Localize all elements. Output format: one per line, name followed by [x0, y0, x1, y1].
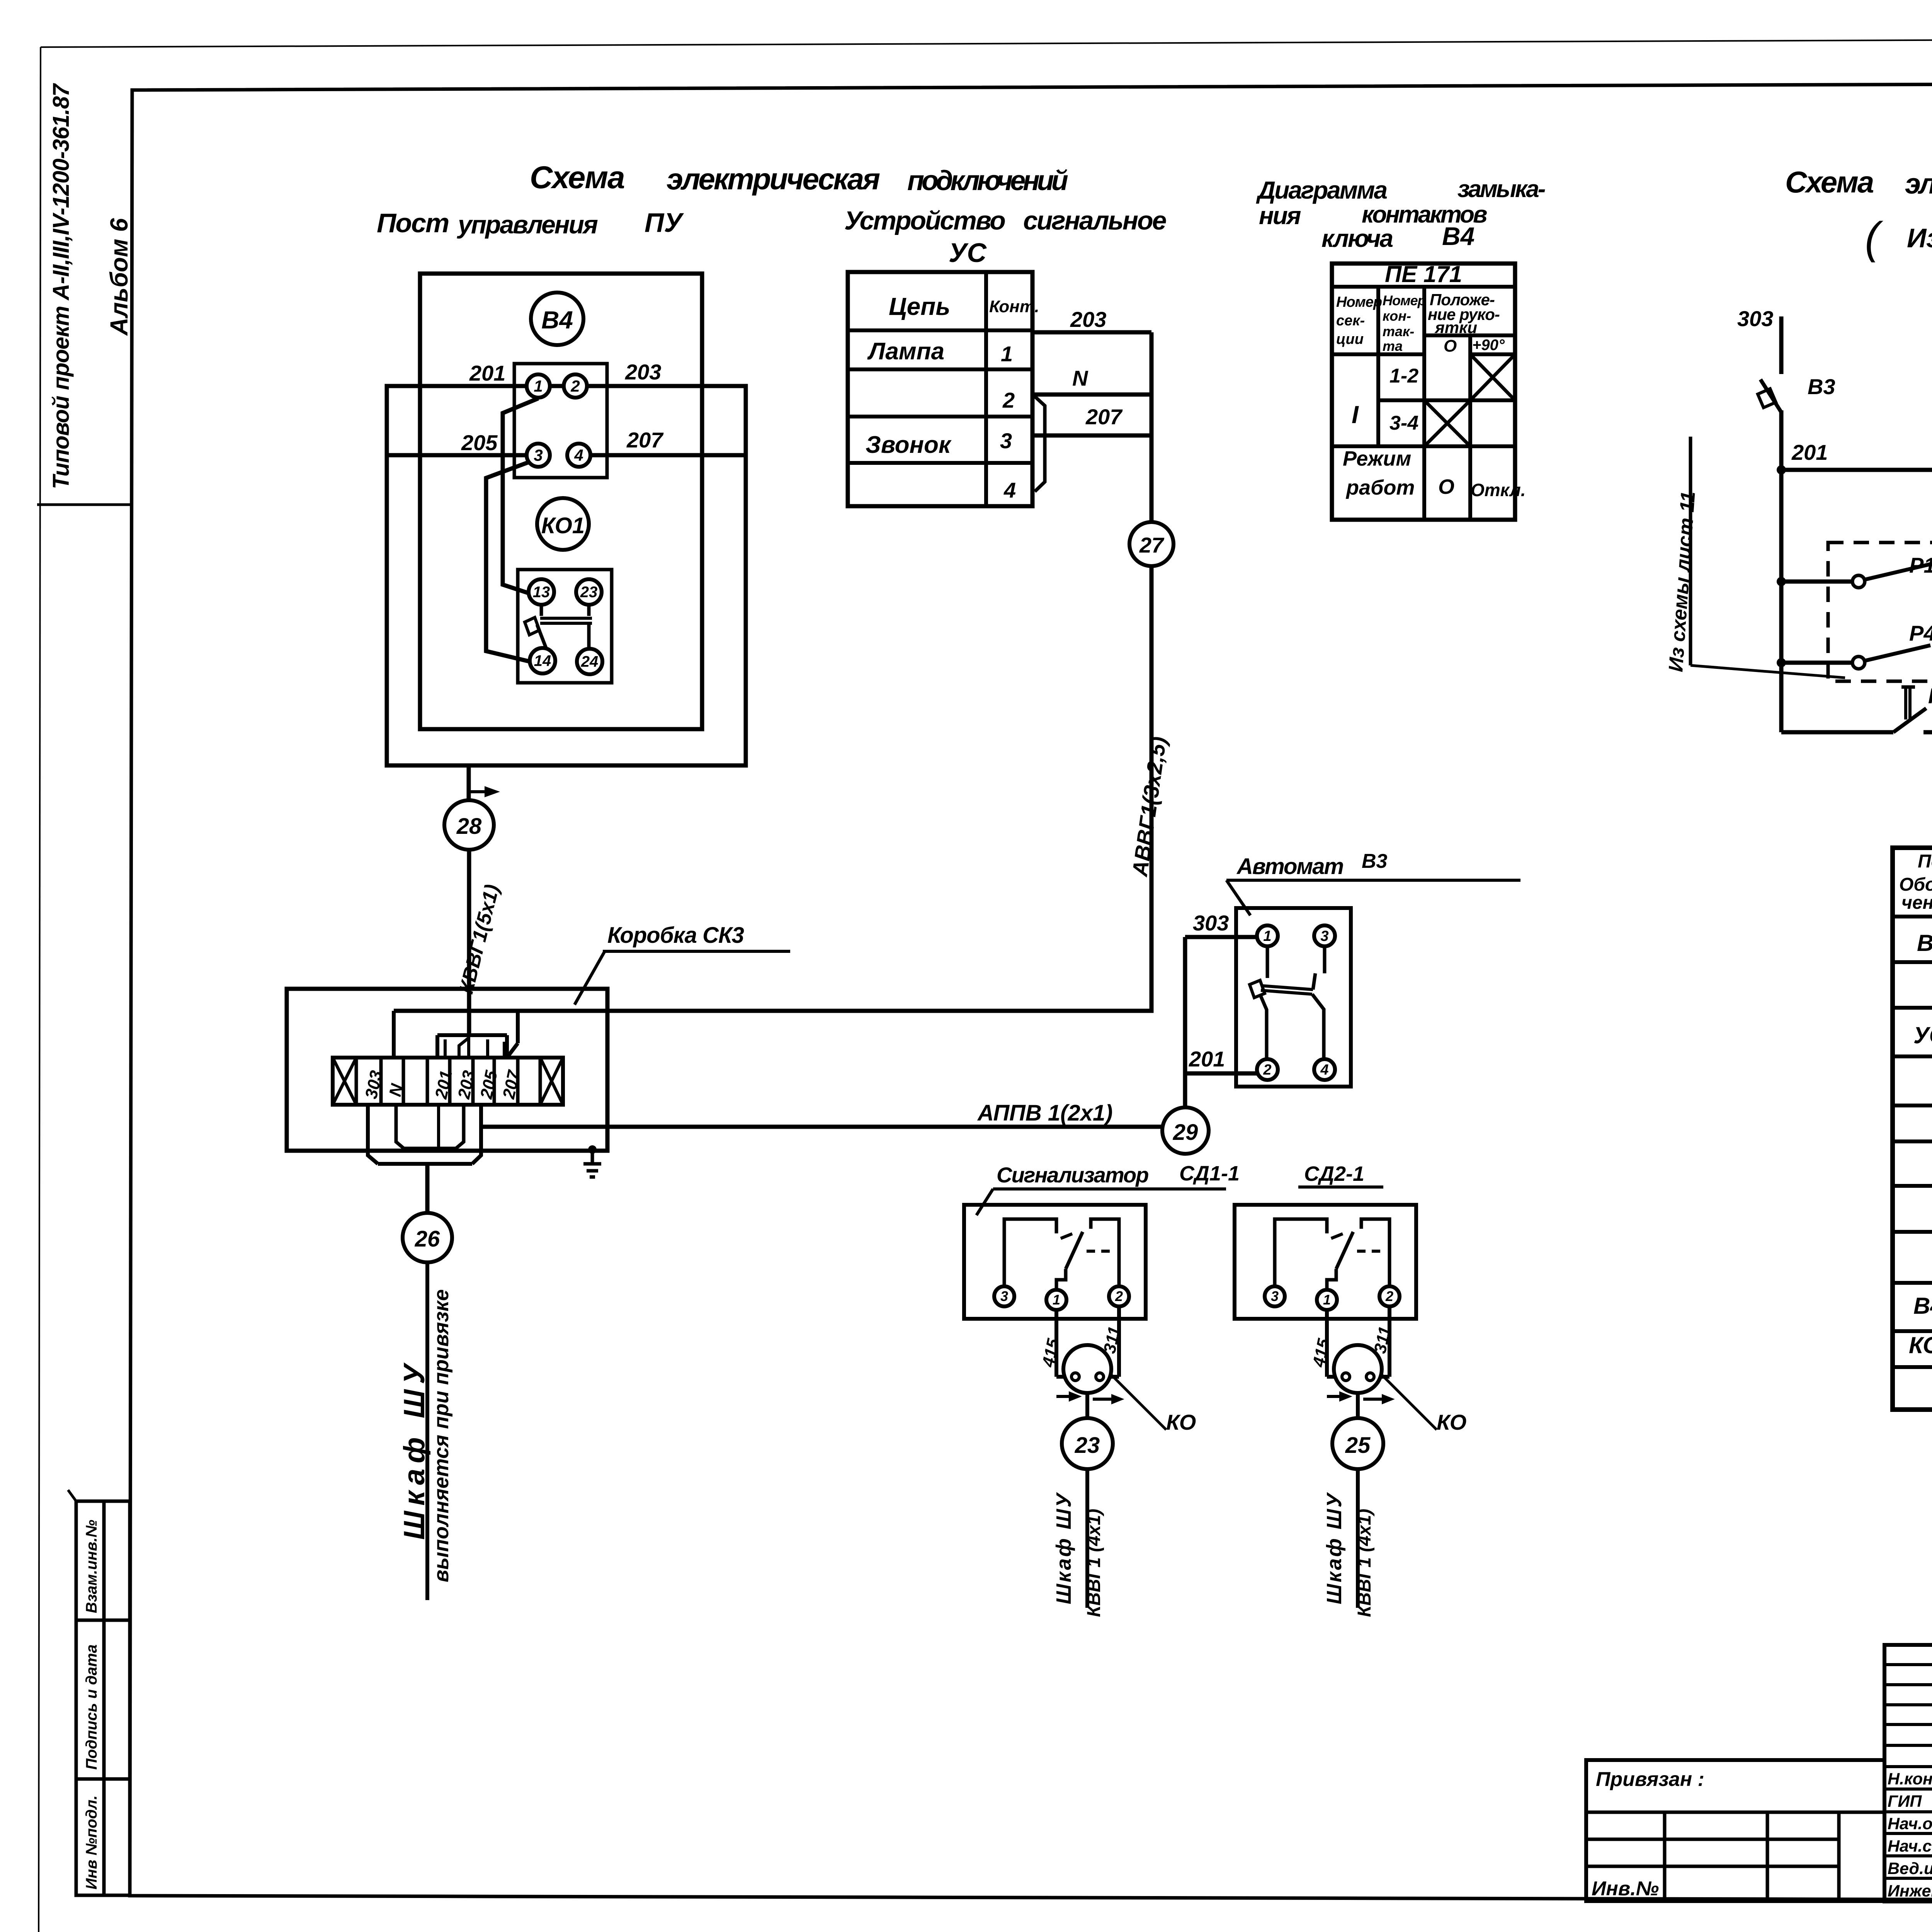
KO1 contact symbol — [540, 605, 543, 616]
svg-text:КО1: КО1 — [541, 513, 585, 538]
svg-text:Обозна-: Обозна- — [1899, 874, 1932, 895]
binding box Привязан — [1586, 1760, 1884, 1901]
SD2-1 pin 1 — [1317, 1290, 1337, 1310]
svg-text:Схема: Схема — [1785, 165, 1874, 199]
button KO1 contact in schematic — [1781, 730, 1893, 735]
svg-text:КО: КО — [1166, 1410, 1196, 1434]
KO1 pin 24 — [577, 649, 602, 674]
svg-text:КВВГ1 (4х1): КВВГ1 (4х1) — [1354, 1509, 1375, 1617]
svg-text:ПУ: ПУ — [645, 207, 684, 238]
svg-text:Номер: Номер — [1336, 294, 1382, 310]
node 27 cable circle — [1129, 522, 1173, 566]
node 25 cable circle — [1332, 1418, 1383, 1469]
contact closed X mark (3-4 at O) — [1424, 400, 1470, 446]
SD2-1 wire 311 — [1388, 1306, 1391, 1377]
wire 207 from US pin 3 — [1032, 434, 1151, 438]
cable to ShU cabinet — [425, 1262, 429, 1600]
svg-text:В4: В4 — [1913, 1293, 1932, 1319]
button KO1 designator circle — [537, 498, 589, 550]
svg-text:4: 4 — [574, 446, 583, 464]
svg-text:Автомат: Автомат — [1236, 854, 1344, 879]
svg-text:201: 201 — [1189, 1047, 1225, 1071]
control post PU outer box — [387, 386, 746, 765]
svg-text:О: О — [1438, 475, 1454, 498]
SD2-1 pin 2 — [1379, 1286, 1400, 1306]
margin stamp boxes: Взам.инв.№ / Подпись и дата / Инв №подл. — [76, 1501, 130, 1895]
node 26 cable circle — [403, 1213, 452, 1262]
svg-text:4: 4 — [1320, 1062, 1328, 1078]
SD1-1 wire KO to node — [1085, 1393, 1089, 1419]
signature table grid — [1884, 1645, 1932, 1901]
svg-text:1: 1 — [1323, 1292, 1331, 1308]
svg-text:Номер: Номер — [1383, 293, 1426, 308]
svg-text:электрическая: электрическая — [1905, 168, 1932, 200]
SD1-1 cable to ShU — [1085, 1469, 1089, 1608]
breaker B3 symbol — [1760, 379, 1781, 412]
ground symbol at SK3 — [588, 1145, 597, 1154]
B4 pin 3 — [527, 444, 550, 467]
svg-text:Конт.: Конт. — [989, 297, 1039, 316]
B3 breaker symbol — [1266, 946, 1269, 978]
SD1-1 wire 311 — [1117, 1306, 1121, 1377]
svg-text:+90°: +90° — [1472, 337, 1505, 354]
svg-text:3: 3 — [1000, 429, 1012, 453]
svg-text:N: N — [1072, 366, 1088, 390]
button KO1 terminal box — [518, 570, 612, 683]
svg-text:СД2-1: СД2-1 — [1304, 1162, 1364, 1185]
svg-text:207: 207 — [626, 428, 664, 452]
svg-text:чение: чение — [1901, 893, 1932, 913]
SD2-1 wire KO to node — [1356, 1393, 1360, 1419]
svg-text:управления: управления — [457, 210, 598, 239]
KO1 pin 14 — [530, 648, 555, 673]
svg-text:Нач.отд: Нач.отд — [1888, 1815, 1932, 1833]
svg-text:2: 2 — [1263, 1062, 1271, 1078]
svg-text:сек-: сек- — [1336, 313, 1365, 329]
svg-text:3: 3 — [1000, 1288, 1008, 1304]
cable AVVG down wire — [1150, 332, 1154, 522]
wire from pin 1 to pin 13 — [503, 398, 538, 593]
wire 303 to B3 pin1 — [1185, 935, 1257, 939]
svg-text:Взам.инв.№: Взам.инв.№ — [83, 1520, 100, 1613]
breaker B3 wire top — [1779, 316, 1784, 374]
sheet paper edge — [41, 37, 1932, 47]
wire 201 horizontal — [1781, 468, 1932, 472]
svg-text:203: 203 — [1070, 307, 1106, 332]
svg-text:та: та — [1383, 338, 1403, 354]
svg-text:24: 24 — [581, 653, 599, 670]
svg-text:КО1: КО1 — [1909, 1332, 1932, 1358]
B3 pin 2 — [1257, 1059, 1278, 1080]
breaker B3 wire bottom — [1779, 410, 1784, 470]
svg-text:3-4: 3-4 — [1389, 412, 1418, 434]
svg-text:Вед.инж.: Вед.инж. — [1888, 1859, 1932, 1878]
cable bracket — [1035, 396, 1045, 492]
svg-text:Лампа: Лампа — [867, 338, 944, 365]
wire APPV to node 29 — [481, 1125, 1163, 1129]
svg-text:28: 28 — [456, 814, 482, 839]
svg-text:Инв.№: Инв.№ — [1592, 1878, 1659, 1900]
node 29 cable circle — [1162, 1107, 1209, 1154]
svg-text:В4: В4 — [1442, 222, 1475, 250]
cable down from SK3 — [425, 1164, 430, 1213]
SD2-1 cable direction arrows — [1327, 1395, 1340, 1398]
KO1 pin 23 — [576, 579, 602, 605]
svg-text:УС: УС — [949, 238, 987, 268]
wire N from US pin 2 — [1032, 393, 1151, 397]
svg-text:кон-: кон- — [1383, 308, 1411, 324]
svg-text:205: 205 — [461, 430, 498, 455]
svg-text:3: 3 — [1320, 928, 1328, 944]
svg-text:27: 27 — [1139, 533, 1165, 557]
flow indicator SD2-1 box — [1235, 1205, 1416, 1319]
svg-text:2: 2 — [570, 377, 580, 395]
svg-text:ятки: ятки — [1434, 318, 1477, 337]
B3 pin 3 — [1314, 925, 1335, 946]
svg-text:КО: КО — [1437, 1410, 1466, 1434]
svg-text:Альбом 6: Альбом 6 — [105, 218, 133, 336]
B3 pin 1 — [1257, 925, 1278, 946]
svg-text:Схема: Схема — [530, 160, 624, 195]
KO1 pin 13 — [529, 579, 554, 605]
svg-text:29: 29 — [1173, 1120, 1198, 1145]
cable from PU down — [467, 765, 471, 800]
svg-text:Шкаф ШУ: Шкаф ШУ — [398, 1359, 431, 1540]
terminal strip end X left — [333, 1058, 356, 1105]
B4 pin 1 — [527, 374, 550, 398]
svg-text:Из: Из — [1907, 223, 1932, 253]
svg-text:3: 3 — [534, 446, 543, 464]
svg-text:1: 1 — [1001, 342, 1013, 366]
wire 203 from US pin 1 — [1032, 330, 1151, 335]
svg-text:Цепь: Цепь — [889, 293, 950, 320]
svg-text:Устройство: Устройство — [844, 206, 1005, 235]
switch B4 terminal box — [514, 364, 607, 478]
svg-text:201: 201 — [469, 361, 505, 385]
svg-text:Сигнализатор: Сигнализатор — [997, 1163, 1148, 1187]
svg-text:1-2: 1-2 — [1389, 365, 1418, 387]
SD1-1 KO cable circle — [1063, 1345, 1111, 1393]
svg-text:14: 14 — [534, 653, 551, 670]
svg-text:замыка-: замыка- — [1458, 176, 1545, 202]
svg-text:подключений: подключений — [907, 165, 1068, 196]
svg-text:4: 4 — [1003, 478, 1016, 502]
svg-text:работ: работ — [1345, 476, 1415, 499]
SD2-1 wire 415 — [1325, 1310, 1329, 1377]
signal device US table — [848, 272, 1032, 506]
svg-text:В3: В3 — [1808, 374, 1835, 399]
cable KVVG1(5x1) wire — [467, 850, 471, 1036]
SD1-1 pin 2 — [1109, 1286, 1129, 1306]
SD2-1 KO label leader — [1382, 1375, 1437, 1430]
svg-text:В3: В3 — [1362, 850, 1388, 872]
SD2-1 internal contact symbol — [1275, 1219, 1327, 1287]
node 28 cable circle — [444, 800, 494, 850]
SD1-1 KO label leader — [1111, 1375, 1166, 1430]
cable fan above strip — [392, 1011, 396, 1058]
svg-text:ния: ния — [1259, 202, 1301, 230]
svg-text:сигнальное: сигнальное — [1023, 206, 1166, 235]
svg-text:1: 1 — [534, 377, 543, 395]
parts list table — [1893, 848, 1932, 1410]
junction box SK3 — [287, 989, 607, 1151]
svg-text:Н.контр: Н.контр — [1888, 1770, 1932, 1788]
svg-text:О: О — [1444, 337, 1457, 355]
SD1-1 cable direction arrows — [1056, 1395, 1069, 1398]
svg-text:303: 303 — [1737, 306, 1773, 331]
svg-text:Нач.сект.: Нач.сект. — [1888, 1837, 1932, 1855]
svg-text:Коробка СК3: Коробка СК3 — [607, 923, 744, 948]
svg-text:Звонок: Звонок — [866, 432, 952, 458]
relay contacts dashed box — [1828, 543, 1932, 681]
wire 205-207 through PU — [387, 453, 527, 457]
svg-text:КВВГ1 (4х1): КВВГ1 (4х1) — [1084, 1509, 1104, 1617]
svg-text:3: 3 — [1271, 1288, 1279, 1304]
wire 201 from B3 pin2 — [1185, 1071, 1257, 1076]
SD2-1 cable to ShU — [1356, 1469, 1360, 1608]
contact closed X mark (1-2 at +90) — [1470, 354, 1515, 400]
SD1-1 pin 3 — [994, 1286, 1014, 1306]
wire from pin 3 to pin 14 — [486, 461, 531, 662]
terminal strip end X right — [540, 1058, 563, 1105]
switch B4 designator circle — [531, 293, 583, 345]
svg-text:АППВ 1(2х1): АППВ 1(2х1) — [977, 1100, 1113, 1126]
svg-text:23: 23 — [1075, 1433, 1100, 1458]
left margin divider — [37, 503, 130, 506]
svg-text:ПЕ 171: ПЕ 171 — [1385, 261, 1462, 287]
svg-text:203: 203 — [625, 360, 661, 384]
svg-text:Инженер: Инженер — [1888, 1882, 1932, 1900]
svg-text:В3: В3 — [1917, 930, 1932, 956]
svg-text:ГИП: ГИП — [1888, 1792, 1922, 1811]
svg-text:Откл.: Откл. — [1471, 480, 1526, 500]
svg-text:23: 23 — [580, 584, 598, 601]
svg-text:Типовой проект А-II,III,IV-12: Типовой проект А-II,III,IV-1200-361.87 — [48, 83, 74, 489]
node 23 cable circle — [1062, 1418, 1113, 1469]
terminal strip in SK3 — [333, 1058, 563, 1105]
svg-text:1: 1 — [1263, 928, 1271, 944]
key B4 contact diagram table PE171 — [1332, 264, 1515, 520]
svg-text:207: 207 — [1085, 405, 1123, 429]
svg-text:так-: так- — [1383, 323, 1414, 339]
svg-text:КО1: КО1 — [1928, 684, 1932, 708]
SD2-1 pin 3 — [1265, 1286, 1285, 1306]
svg-text:УС: УС — [1913, 1022, 1932, 1048]
svg-text:Режим: Режим — [1343, 447, 1411, 470]
svg-text:Диаграмма: Диаграмма — [1256, 176, 1387, 204]
SD1-1 internal contact symbol — [1004, 1219, 1056, 1287]
breaker B3 box — [1236, 908, 1351, 1087]
svg-text:Шкаф ШУ: Шкаф ШУ — [1323, 1492, 1346, 1604]
control post PU inner box — [420, 274, 702, 729]
svg-text:13: 13 — [533, 584, 550, 601]
svg-text:Подпись и дата: Подпись и дата — [83, 1645, 100, 1770]
bus 201 vertical wire — [1779, 470, 1784, 732]
cable AVVG wire to SK3 — [394, 566, 1151, 1011]
svg-text:СД1-1: СД1-1 — [1179, 1162, 1240, 1185]
svg-text:электрическая: электрическая — [667, 162, 880, 196]
svg-text:303: 303 — [1193, 911, 1229, 935]
svg-text:25: 25 — [1345, 1433, 1371, 1458]
svg-text:1: 1 — [1053, 1292, 1060, 1308]
incoming line from sheet 11 — [1689, 437, 1692, 665]
svg-text:201: 201 — [1791, 440, 1828, 464]
flow indicator SD1-1 box — [964, 1205, 1146, 1319]
svg-text:2: 2 — [1385, 1288, 1393, 1304]
wire from node 29 up — [1183, 937, 1187, 1107]
svg-text:2: 2 — [1002, 388, 1015, 412]
svg-text:Поз.: Поз. — [1918, 851, 1932, 872]
relay contact P1 — [1777, 577, 1786, 586]
svg-text:2: 2 — [1115, 1288, 1123, 1304]
svg-text:Р1: Р1 — [1909, 553, 1932, 577]
B4 pin 2 — [564, 374, 587, 398]
svg-text:Р4: Р4 — [1909, 621, 1932, 645]
svg-text:ции: ции — [1336, 331, 1364, 347]
svg-text:выполняется при привязке: выполняется при привязке — [430, 1289, 453, 1582]
svg-text:26: 26 — [415, 1226, 440, 1252]
svg-text:Пост: Пост — [377, 208, 449, 238]
svg-text:I: I — [1352, 401, 1359, 429]
B3 pin 4 — [1314, 1059, 1335, 1080]
SD1-1 pin 1 — [1046, 1290, 1066, 1310]
relay contact P4 — [1777, 658, 1786, 667]
svg-text:В4: В4 — [541, 306, 573, 334]
cable direction arrow — [469, 790, 485, 793]
B4 pin 4 — [567, 444, 590, 467]
svg-text:ключа: ключа — [1321, 224, 1393, 252]
SD2-1 KO cable circle — [1334, 1345, 1382, 1393]
svg-text:Привязан :: Привязан : — [1596, 1768, 1704, 1791]
svg-text:Инв №подл.: Инв №подл. — [83, 1795, 100, 1889]
SD1-1 wire 415 — [1054, 1310, 1058, 1377]
cable fan below strip — [368, 1105, 378, 1164]
svg-text:Шкаф ШУ: Шкаф ШУ — [1052, 1492, 1075, 1604]
